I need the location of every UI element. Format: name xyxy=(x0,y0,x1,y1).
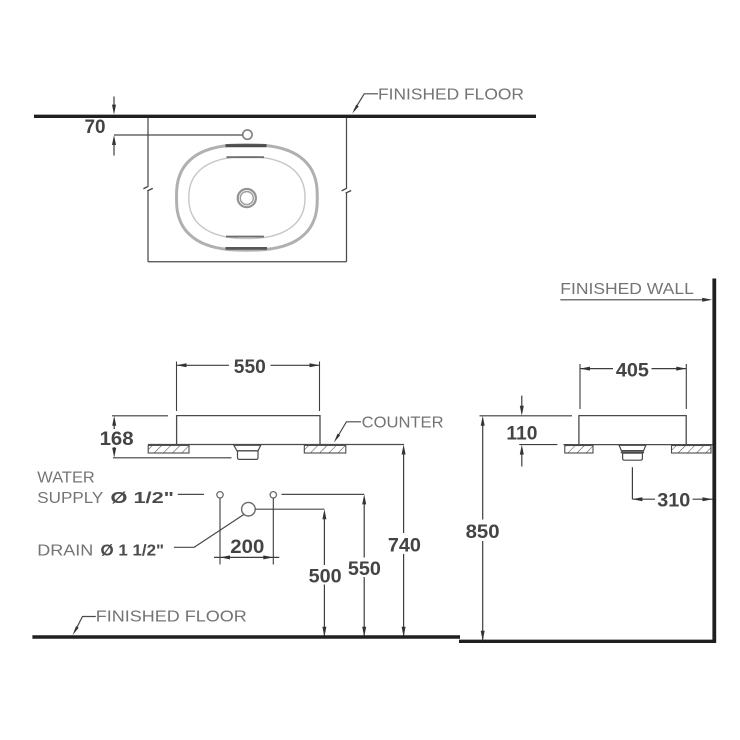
counter outline (plan) xyxy=(148,118,347,262)
dim 850 text xyxy=(466,522,500,543)
svg-text:70: 70 xyxy=(85,117,106,138)
break mark left edge xyxy=(143,186,152,191)
svg-text:FINISHED WALL: FINISHED WALL xyxy=(560,281,694,298)
rim dark segment inner bottom xyxy=(226,236,264,238)
svg-text:FINISHED FLOOR: FINISHED FLOOR xyxy=(96,609,247,626)
break mark right edge xyxy=(342,188,352,193)
drain hole (front) xyxy=(242,502,256,516)
basin inner rim (plan) xyxy=(189,157,305,239)
dim 168 extension lines xyxy=(112,416,232,458)
dim 70 extension/arrows xyxy=(112,97,243,156)
svg-text:SUPPLY: SUPPLY xyxy=(37,490,103,507)
dim 200 line and arrows xyxy=(214,555,279,559)
counter hatch left (side) xyxy=(565,446,593,454)
dim 405 text xyxy=(616,361,649,382)
dim 405 xyxy=(580,364,686,409)
finished wall line (thick) xyxy=(712,279,716,644)
850 top extension line xyxy=(480,415,573,417)
drain level line to 500 ext xyxy=(255,508,324,510)
dim 168 arrows xyxy=(112,416,116,458)
basin (front view) xyxy=(177,416,320,445)
svg-text:405: 405 xyxy=(616,361,649,382)
dim 740 text xyxy=(388,536,421,557)
svg-text:500: 500 xyxy=(309,567,342,588)
dim 310 xyxy=(632,467,712,501)
svg-text:550: 550 xyxy=(234,357,266,378)
finished floor label (bottom) xyxy=(96,609,247,626)
dim 500 text xyxy=(309,567,342,588)
svg-text:740: 740 xyxy=(388,536,421,557)
dim 550 text xyxy=(234,357,266,378)
svg-text:WATER: WATER xyxy=(37,470,95,487)
finished floor leader (bottom) xyxy=(73,617,96,636)
supply hole right xyxy=(270,492,276,498)
dim 200 text xyxy=(230,537,264,558)
supply hole left xyxy=(217,492,223,498)
dim 500 xyxy=(322,509,326,637)
svg-text:310: 310 xyxy=(657,491,690,512)
rim dark segment outer top xyxy=(226,144,267,147)
svg-text:FINISHED FLOOR: FINISHED FLOOR xyxy=(378,87,524,104)
dim 550 xyxy=(177,362,320,412)
dim 70 text xyxy=(85,117,106,138)
rim dark segment outer bottom xyxy=(226,247,268,250)
svg-text:COUNTER: COUNTER xyxy=(362,415,444,432)
faucet hole (plan) xyxy=(243,130,252,139)
svg-text:200: 200 xyxy=(230,537,264,558)
finished floor leader (top) xyxy=(352,94,378,114)
svg-text:Ø 1/2": Ø 1/2" xyxy=(111,490,175,507)
drain leader xyxy=(174,515,244,548)
finished wall leader (underline + arrow) xyxy=(560,298,712,302)
counter label xyxy=(362,415,444,432)
svg-text:110: 110 xyxy=(506,424,537,445)
dim 200 extension lines xyxy=(220,498,273,564)
basin outer rim (plan) xyxy=(177,145,318,250)
dim 850 xyxy=(481,416,485,641)
dim 110 text xyxy=(506,424,537,445)
water supply label xyxy=(37,470,174,507)
dim 550 vertical text xyxy=(348,559,381,580)
finished floor label (top) xyxy=(378,87,524,104)
svg-text:850: 850 xyxy=(466,522,500,543)
counter hatch left (front) xyxy=(148,445,189,453)
supply line to 550 ext xyxy=(282,493,365,495)
counter leader xyxy=(334,422,361,443)
floor line (side, thick) xyxy=(459,640,716,643)
svg-text:Ø 1 1/2": Ø 1 1/2" xyxy=(101,542,165,559)
floor line (front, thick) xyxy=(32,635,460,639)
counter line (side) xyxy=(564,444,713,446)
supply leader line xyxy=(178,493,204,495)
svg-text:168: 168 xyxy=(100,429,134,450)
dim 740 xyxy=(402,445,406,637)
dim 550 vertical xyxy=(362,494,366,636)
counter hatch right (side) xyxy=(672,446,712,454)
finished floor line (plan view, thick) xyxy=(34,115,536,118)
drain fitting (side) xyxy=(619,445,646,460)
rim dark segment inner top xyxy=(227,156,265,158)
dim 310 text xyxy=(657,491,690,512)
dim 168 text xyxy=(100,429,134,450)
counter line (front) xyxy=(148,444,404,446)
basin (side view) xyxy=(579,416,686,445)
drain (plan) xyxy=(238,189,256,207)
drain fitting (front) xyxy=(234,445,261,459)
svg-text:550: 550 xyxy=(348,559,381,580)
svg-text:DRAIN: DRAIN xyxy=(37,542,93,559)
drain label xyxy=(37,542,164,559)
counter hatch right (front) xyxy=(304,445,346,453)
dim 110 xyxy=(519,396,557,467)
finished wall label xyxy=(560,281,694,298)
